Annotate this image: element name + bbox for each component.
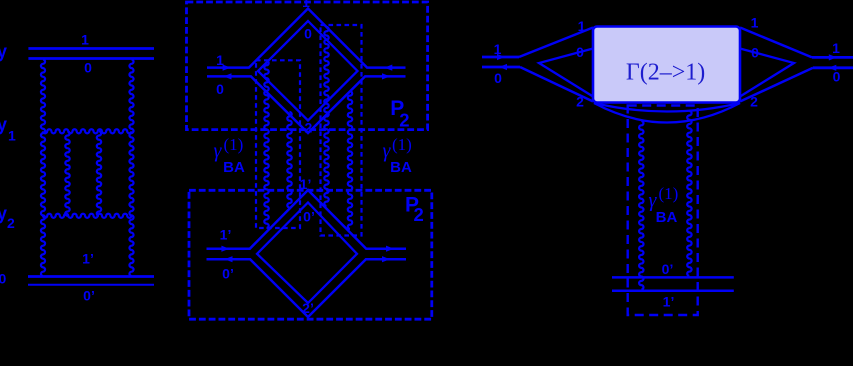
svg-text:0: 0 bbox=[0, 271, 7, 287]
svg-text:1: 1 bbox=[216, 52, 224, 68]
svg-text:0’: 0’ bbox=[222, 266, 234, 282]
svg-text:0’: 0’ bbox=[662, 261, 674, 277]
svg-text:BA: BA bbox=[390, 159, 412, 176]
svg-text:0’: 0’ bbox=[303, 209, 315, 225]
svg-text:2: 2 bbox=[414, 204, 424, 225]
svg-text:0: 0 bbox=[84, 60, 92, 76]
svg-text:0’: 0’ bbox=[83, 288, 95, 304]
svg-text:0: 0 bbox=[751, 45, 759, 61]
svg-text:2’: 2’ bbox=[302, 300, 314, 316]
svg-text:1: 1 bbox=[751, 15, 759, 31]
svg-text:2: 2 bbox=[7, 215, 15, 231]
svg-text:0: 0 bbox=[833, 69, 841, 85]
svg-text:(1): (1) bbox=[224, 135, 244, 154]
svg-text:y: y bbox=[0, 115, 7, 135]
svg-text:1: 1 bbox=[81, 32, 89, 48]
svg-text:1’: 1’ bbox=[300, 176, 312, 192]
svg-text:1: 1 bbox=[578, 18, 586, 34]
svg-text:(1): (1) bbox=[392, 135, 412, 154]
svg-text:0: 0 bbox=[216, 81, 224, 97]
svg-text:1: 1 bbox=[8, 128, 16, 144]
svg-text:0: 0 bbox=[494, 70, 502, 86]
svg-text:(1): (1) bbox=[659, 184, 679, 203]
svg-text:BA: BA bbox=[223, 159, 245, 176]
svg-text:y: y bbox=[0, 204, 7, 224]
svg-text:BA: BA bbox=[656, 209, 678, 226]
svg-text:Γ(2–>1): Γ(2–>1) bbox=[626, 60, 705, 86]
svg-text:1: 1 bbox=[302, 0, 310, 10]
svg-text:y: y bbox=[0, 42, 7, 62]
svg-text:2: 2 bbox=[305, 119, 313, 135]
svg-text:2: 2 bbox=[576, 94, 584, 110]
svg-text:1: 1 bbox=[494, 41, 502, 57]
svg-text:1’: 1’ bbox=[220, 227, 232, 243]
svg-text:1: 1 bbox=[832, 40, 840, 56]
svg-text:1’: 1’ bbox=[82, 251, 94, 267]
svg-text:0: 0 bbox=[304, 26, 312, 42]
svg-text:2: 2 bbox=[750, 94, 758, 110]
svg-text:2: 2 bbox=[399, 110, 409, 131]
svg-text:0: 0 bbox=[576, 44, 584, 60]
svg-text:1’: 1’ bbox=[663, 294, 675, 310]
svg-text:γ: γ bbox=[214, 140, 223, 162]
